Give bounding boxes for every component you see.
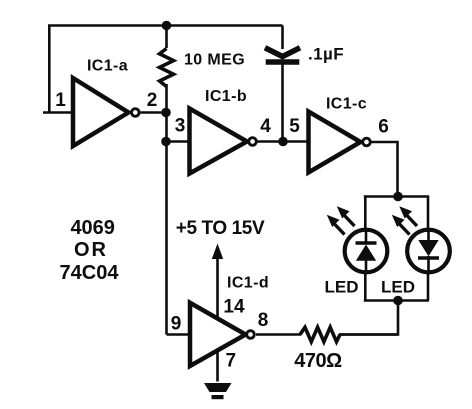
svg-text:IC1-c: IC1-c <box>326 96 367 113</box>
wire LED bottom rail <box>364 299 429 302</box>
wire feedback vertical left <box>48 26 51 113</box>
capacitor .1µF <box>268 49 298 62</box>
wire LED right branch <box>427 196 430 301</box>
ground <box>204 383 232 399</box>
svg-text:IC1-b: IC1-b <box>205 88 247 105</box>
svg-text:LED: LED <box>381 278 415 297</box>
power arrowhead <box>212 244 223 260</box>
junction pin2 node <box>161 108 171 118</box>
svg-text:7: 7 <box>226 351 237 372</box>
svg-text:10 MEG: 10 MEG <box>184 52 245 69</box>
wire IC1-a output to rail <box>141 111 167 114</box>
wire LED left branch <box>364 196 367 301</box>
junction LED bottom <box>393 296 403 306</box>
svg-text:1: 1 <box>55 90 66 111</box>
svg-text:IC1-d: IC1-d <box>227 275 269 292</box>
svg-text:5: 5 <box>289 116 300 137</box>
bubble IC1-d output <box>247 331 255 339</box>
svg-text:IC1-a: IC1-a <box>87 58 128 75</box>
svg-text:OR: OR <box>74 239 108 261</box>
svg-text:8: 8 <box>258 310 269 331</box>
svg-text:470Ω: 470Ω <box>294 350 342 372</box>
wire capacitor drop top <box>281 26 284 50</box>
wire IC1-a input stub <box>43 111 73 114</box>
wire rail to IC1-d input <box>167 333 191 336</box>
junction pin3 node <box>161 137 171 147</box>
svg-text:14: 14 <box>223 297 245 318</box>
inverter IC1-c <box>309 112 361 173</box>
wire pin6 output <box>372 142 398 197</box>
inverter IC1-b <box>190 109 248 174</box>
wire pin3 to IC1-b <box>167 140 190 143</box>
inverter IC1-d <box>190 303 246 366</box>
svg-text:2: 2 <box>147 90 158 111</box>
wire resistor to LED node <box>339 333 398 336</box>
svg-text:4: 4 <box>260 116 271 137</box>
svg-text:6: 6 <box>378 117 389 138</box>
wire IC1-d output <box>256 333 301 336</box>
wire LED bottom to resistor <box>339 301 398 335</box>
wire pin5 to IC1-c <box>283 140 309 143</box>
svg-text:.1µF: .1µF <box>308 45 344 64</box>
wire LED top rail <box>364 195 429 198</box>
wire capacitor drop bottom <box>281 65 284 142</box>
LED right <box>392 206 450 272</box>
svg-text:LED: LED <box>325 278 359 297</box>
junction LED top <box>393 192 403 202</box>
inverter IC1-a <box>73 78 129 146</box>
svg-text:3: 3 <box>175 116 186 137</box>
bubble IC1-a output <box>132 109 140 117</box>
LED left <box>327 206 388 272</box>
svg-text:74C04: 74C04 <box>60 262 120 284</box>
power +5 TO 15V pin14 line <box>216 258 219 318</box>
bubble IC1-b output <box>249 138 257 146</box>
wire top horizontal <box>48 24 283 27</box>
wire pin4 to node <box>258 140 284 143</box>
wire pin7 to ground <box>216 351 219 382</box>
svg-text:+5 TO 15V: +5 TO 15V <box>176 218 265 239</box>
wire main vertical rail <box>165 84 168 335</box>
junction pin4-5 node <box>278 137 288 147</box>
bubble IC1-c output <box>363 138 371 146</box>
resistor 470Ω <box>300 327 340 341</box>
svg-text:9: 9 <box>171 314 182 335</box>
junction top rail <box>162 21 172 31</box>
wire rail above resistor <box>165 26 168 49</box>
resistor 10 MEG <box>160 49 174 87</box>
svg-text:4069: 4069 <box>70 217 115 239</box>
